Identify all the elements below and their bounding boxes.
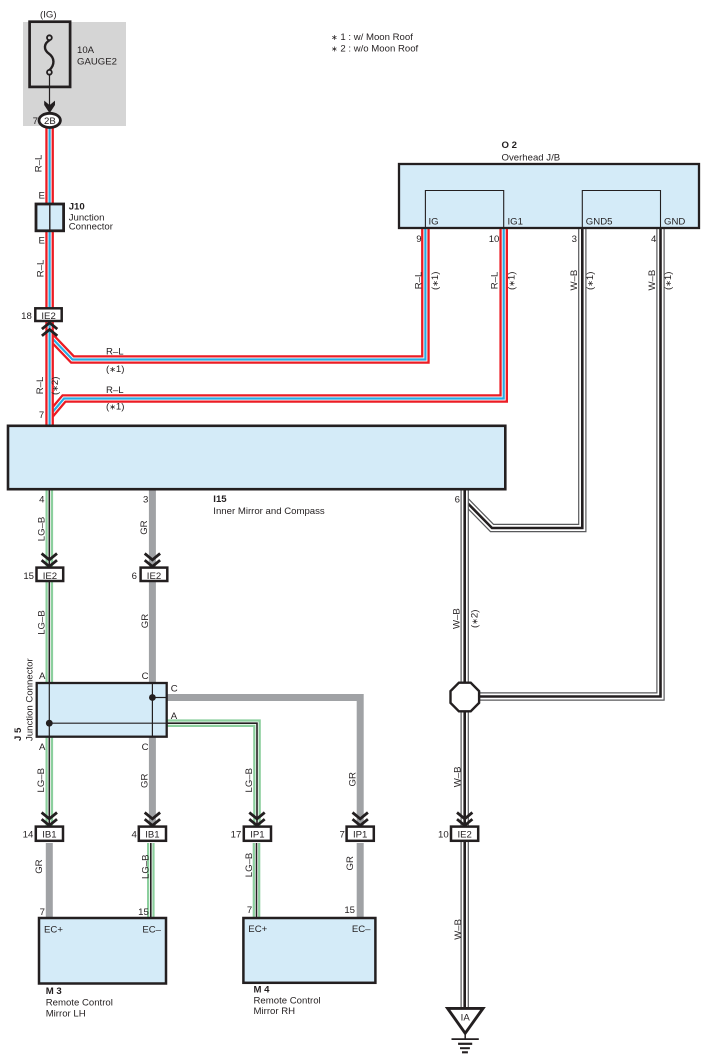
wire label LG-B col2 lower	[141, 854, 152, 879]
chevron down above IB1 14	[42, 813, 57, 826]
svg-text:Inner Mirror and Compass: Inner Mirror and Compass	[213, 506, 325, 517]
svg-text:3: 3	[572, 234, 577, 245]
connector IE2 pin 6	[141, 568, 168, 582]
svg-text:W–B: W–B	[569, 270, 580, 291]
wire label (*1) pin3	[585, 272, 596, 290]
svg-text:M 4: M 4	[254, 985, 271, 996]
chevron down above IP1 17	[249, 813, 264, 826]
svg-text:7: 7	[40, 907, 45, 918]
svg-text:3: 3	[143, 495, 148, 506]
wire GR J5 branch to IP1 7	[167, 698, 361, 829]
svg-text:EC+: EC+	[44, 925, 63, 936]
J5 pin A bottom	[39, 742, 46, 753]
label J10 Junction Connector	[69, 202, 114, 233]
wire label LG-B col3	[244, 768, 255, 793]
svg-text:IB1: IB1	[145, 830, 159, 841]
M3 pin 15	[138, 907, 149, 918]
svg-text:7: 7	[39, 410, 44, 421]
junction connector J10	[36, 204, 64, 231]
chevron down above IE2 15	[42, 554, 57, 567]
svg-text:W–B: W–B	[647, 270, 658, 291]
svg-text:4: 4	[651, 234, 657, 245]
connector IE2 pin 10	[451, 827, 478, 841]
wire label GR col2 below J5	[139, 774, 150, 788]
wire LG-B J5 branch to IP1 17	[167, 723, 257, 828]
svg-text:IP1: IP1	[250, 830, 264, 841]
chevron down above IB1 4	[145, 813, 160, 826]
M3 pin EC-	[142, 925, 161, 936]
junction connector J5	[37, 683, 167, 737]
wire W-B GND to splice	[478, 227, 661, 697]
note *1 w/ Moon Roof	[331, 32, 413, 43]
svg-text:LG–B: LG–B	[244, 853, 255, 878]
pin 3 of I15	[143, 495, 148, 506]
junction block O2 Overhead J/B	[399, 164, 699, 228]
J5 pin A top	[39, 671, 46, 682]
svg-text:R–L: R–L	[490, 271, 501, 289]
svg-text:IG1: IG1	[508, 217, 523, 228]
svg-text:Remote Control: Remote Control	[254, 996, 321, 1007]
svg-text:9: 9	[416, 234, 421, 245]
svg-text:10A: 10A	[77, 45, 95, 56]
svg-text:(∗2): (∗2)	[50, 377, 61, 395]
component I15 Inner Mirror and Compass	[8, 426, 505, 489]
svg-text:LG–B: LG–B	[36, 517, 47, 542]
pin 7	[339, 830, 344, 841]
svg-text:LG–B: LG–B	[36, 610, 47, 635]
J5 pin C right	[171, 684, 178, 695]
wire R-L main vertical	[45, 124, 54, 426]
pin E above J10	[38, 190, 44, 201]
connector 2B oval	[39, 113, 60, 127]
svg-text:EC+: EC+	[248, 924, 267, 935]
svg-text:18: 18	[21, 311, 32, 322]
connector IE2 pin 18	[35, 308, 61, 322]
svg-text:(∗1): (∗1)	[430, 272, 441, 290]
wire label R-L branch1	[106, 347, 124, 358]
pin E below J10	[38, 236, 44, 247]
wire label W-B pin3	[569, 270, 580, 291]
svg-text:∗ 1 : w/ Moon Roof: ∗ 1 : w/ Moon Roof	[331, 32, 413, 43]
pin 10	[438, 830, 449, 841]
svg-text:GND5: GND5	[586, 217, 613, 228]
svg-text:IE2: IE2	[457, 830, 471, 841]
svg-text:(IG): (IG)	[40, 9, 57, 20]
J5 internal branch line C	[152, 697, 166, 699]
svg-text:R–L: R–L	[106, 385, 124, 396]
pin 9	[416, 234, 421, 245]
pin GND5	[586, 217, 613, 228]
svg-text:C: C	[142, 671, 149, 682]
pin IG	[429, 217, 439, 228]
svg-text:Mirror RH: Mirror RH	[254, 1006, 296, 1017]
svg-text:10: 10	[438, 830, 449, 841]
chevron down above IP1 7	[353, 813, 368, 826]
svg-text:A: A	[39, 671, 46, 682]
svg-text:GR: GR	[345, 856, 356, 870]
svg-text:R–L: R–L	[35, 376, 46, 394]
svg-text:15: 15	[344, 905, 355, 916]
svg-text:(∗1): (∗1)	[585, 272, 596, 290]
svg-text:(∗1): (∗1)	[663, 272, 674, 290]
M4 pin EC-	[352, 924, 371, 935]
svg-text:IB1: IB1	[42, 830, 56, 841]
pin 7 of 2B	[33, 116, 38, 127]
wire label R-L pin10	[490, 271, 501, 289]
svg-text:10: 10	[489, 234, 500, 245]
svg-text:IE2: IE2	[147, 571, 161, 582]
svg-text:EC–: EC–	[352, 924, 371, 935]
svg-text:15: 15	[138, 907, 149, 918]
wire W-B I15 pin 6 to ground IA	[461, 487, 469, 1009]
wire label R-L pin9	[413, 271, 424, 289]
J5 junction dot A	[46, 720, 53, 727]
pin 4	[132, 830, 138, 841]
J5 junction dot C	[149, 694, 156, 701]
svg-text:4: 4	[132, 830, 138, 841]
svg-text:C: C	[142, 742, 149, 753]
wire label R-L below J10	[35, 259, 46, 277]
svg-text:C: C	[171, 684, 178, 695]
wire label (*1) pin10	[507, 272, 518, 290]
svg-text:O 2: O 2	[502, 140, 517, 151]
wire label LG-B col3 lower	[244, 853, 255, 878]
pin 18	[21, 311, 32, 322]
svg-text:7: 7	[33, 116, 38, 127]
pin 4 of I15	[39, 495, 45, 506]
M3 pin EC+	[44, 925, 63, 936]
wire label W-B pin4	[647, 270, 658, 291]
wire GR I15 pin 3 to IB1	[149, 487, 156, 828]
label I15	[213, 494, 325, 517]
svg-text:W–B: W–B	[452, 767, 463, 788]
arrow into connector 2B	[44, 101, 55, 114]
svg-text:14: 14	[23, 830, 34, 841]
wire label (*2) pin6	[469, 610, 480, 628]
J5 pin A right	[171, 711, 178, 722]
wire label W-B bottom	[453, 919, 464, 940]
pin 17	[231, 830, 242, 841]
pin 6 of I15	[455, 495, 460, 506]
J5 pin C top	[142, 671, 149, 682]
svg-text:J10: J10	[69, 202, 85, 213]
wire R-L branch to O2 pin 10	[51, 227, 504, 415]
svg-text:Remote Control: Remote Control	[46, 998, 113, 1009]
wire LG-B I15 pin 4 to IB1	[45, 487, 53, 828]
svg-text:17: 17	[231, 830, 242, 841]
svg-text:LG–B: LG–B	[244, 768, 255, 793]
M4 pin 7	[247, 905, 252, 916]
wire label (*1) branch1	[106, 364, 124, 375]
wire label R-L main	[35, 376, 46, 394]
label O2	[502, 140, 561, 163]
J5 internal wire LG-B	[48, 683, 50, 737]
wire GR IB1 14 to M3 pin 7	[46, 843, 53, 920]
wire label (*1) branch2	[106, 401, 124, 412]
power source gray block	[23, 22, 126, 126]
svg-text:Junction Connector: Junction Connector	[24, 658, 35, 741]
M4 pin 15	[344, 905, 355, 916]
svg-text:GAUGE2: GAUGE2	[77, 56, 117, 67]
pin IG1	[508, 217, 523, 228]
svg-text:EC–: EC–	[142, 925, 161, 936]
svg-text:R–L: R–L	[106, 347, 124, 358]
svg-text:GR: GR	[139, 520, 150, 534]
M3 pin 7	[40, 907, 45, 918]
svg-text:IE2: IE2	[43, 571, 57, 582]
wire label GR col4 lower	[345, 856, 356, 870]
J5 pin C bottom	[142, 742, 149, 753]
svg-text:E: E	[38, 236, 44, 247]
svg-text:IE2: IE2	[41, 311, 55, 322]
svg-text:GR: GR	[34, 859, 45, 873]
svg-text:IP1: IP1	[353, 830, 367, 841]
component M3 Remote Control Mirror LH	[39, 918, 166, 984]
label M4	[254, 985, 321, 1018]
connector IB1 pin 4	[139, 827, 166, 841]
pin 4	[651, 234, 657, 245]
pin GND	[664, 217, 685, 228]
component M4 Remote Control Mirror RH	[243, 918, 375, 983]
J5 internal branch line A	[49, 722, 166, 724]
svg-text:GR: GR	[140, 614, 151, 628]
svg-text:GR: GR	[139, 774, 150, 788]
svg-text:E: E	[38, 190, 44, 201]
ground symbol	[452, 1033, 479, 1052]
ground connector IA	[448, 1008, 483, 1033]
wire label W-B above IE2 10	[452, 767, 463, 788]
svg-text:IG: IG	[429, 217, 439, 228]
chevron up below IE2 18	[42, 323, 57, 336]
svg-text:IA: IA	[461, 1012, 471, 1023]
wire label LG-B col1 mid	[36, 610, 47, 635]
svg-text:Overhead J/B: Overhead J/B	[502, 152, 561, 163]
J5 internal wire GR	[151, 683, 153, 737]
connector IE2 pin 15	[37, 568, 64, 582]
svg-text:GR: GR	[347, 772, 358, 786]
pin 3	[572, 234, 577, 245]
connector IP1 pin 7	[347, 827, 374, 841]
svg-text:M 3: M 3	[46, 986, 62, 997]
pin 6	[132, 571, 137, 582]
label M3	[46, 986, 113, 1020]
wire R-L branch to O2 pin 9	[51, 227, 426, 360]
chevron down above IE2 6	[145, 554, 160, 567]
svg-text:Mirror LH: Mirror LH	[46, 1009, 86, 1020]
svg-text:Connector: Connector	[69, 222, 114, 233]
svg-text:4: 4	[39, 495, 45, 506]
svg-text:(∗1): (∗1)	[106, 364, 124, 375]
note *2 w/o Moon Roof	[331, 44, 419, 55]
fuse 10A GAUGE2	[30, 22, 71, 87]
chevron down above IE2 10	[457, 813, 472, 826]
wire label (*1) pin4	[663, 272, 674, 290]
connector IB1 pin 14	[36, 827, 63, 841]
wire label LG-B col1 upper	[36, 517, 47, 542]
wire label R-L top	[33, 154, 44, 172]
svg-text:R–L: R–L	[33, 154, 44, 172]
svg-text:6: 6	[455, 495, 460, 506]
wire GR IP1 7 to M4 pin 15	[357, 843, 364, 920]
wire label GR col2 mid	[140, 614, 151, 628]
wire label GR col2 upper	[139, 520, 150, 534]
svg-text:I15: I15	[213, 494, 227, 505]
svg-text:LG–B: LG–B	[36, 768, 47, 793]
label 10A GAUGE2	[77, 45, 117, 67]
connector IP1 pin 17	[244, 827, 271, 841]
svg-text:J 5: J 5	[13, 727, 24, 741]
wire LG-B IB1 4 to M3 pin 15	[147, 843, 155, 920]
svg-text:LG–B: LG–B	[141, 854, 152, 879]
svg-text:(∗2): (∗2)	[469, 610, 480, 628]
label (IG)	[40, 9, 57, 20]
svg-text:R–L: R–L	[35, 259, 46, 277]
pin 14	[23, 830, 34, 841]
splice octagon	[451, 683, 480, 712]
svg-text:R–L: R–L	[413, 271, 424, 289]
wire label W-B pin6	[452, 608, 463, 629]
svg-text:W–B: W–B	[453, 919, 464, 940]
M4 pin EC+	[248, 924, 267, 935]
pin 15	[23, 571, 34, 582]
svg-text:6: 6	[132, 571, 137, 582]
wire label (*1) pin9	[430, 272, 441, 290]
wire label GR col4	[347, 772, 358, 786]
wire label GR col1 lower	[34, 859, 45, 873]
svg-text:W–B: W–B	[452, 608, 463, 629]
svg-text:2B: 2B	[44, 116, 56, 127]
svg-text:∗ 2 : w/o Moon Roof: ∗ 2 : w/o Moon Roof	[331, 44, 419, 55]
wire label (*2) main	[50, 377, 61, 395]
label J5	[13, 658, 35, 741]
wire LG-B IP1 17 to M4 pin 7	[253, 843, 261, 920]
pin 7 of I15	[39, 410, 44, 421]
wire fuse to 2B	[49, 75, 51, 113]
pin 10	[489, 234, 500, 245]
svg-text:A: A	[171, 711, 178, 722]
svg-text:7: 7	[247, 905, 252, 916]
wire W-B GND5 to I15 pin 6	[466, 227, 582, 528]
wire label R-L branch2	[106, 385, 124, 396]
svg-text:7: 7	[339, 830, 344, 841]
svg-text:A: A	[39, 742, 46, 753]
svg-text:(∗1): (∗1)	[507, 272, 518, 290]
svg-text:(∗1): (∗1)	[106, 401, 124, 412]
svg-text:GND: GND	[664, 217, 685, 228]
wire label LG-B col1 below J5	[36, 768, 47, 793]
svg-text:15: 15	[23, 571, 34, 582]
